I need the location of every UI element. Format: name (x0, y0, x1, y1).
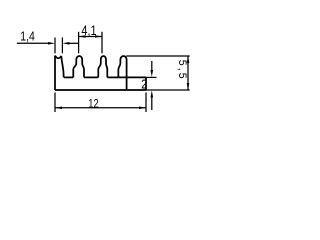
slot 2 bottom (84, 76, 98, 78)
dim 1,4 leader/dimension line (17, 42, 49, 44)
arrow 12 left (points left, tip at x=55) (55, 107, 62, 110)
dim 2 lower arrow shaft (151, 97, 153, 110)
dim 5,5 dimension line (187, 56, 189, 90)
svg-text:4,1: 4,1 (81, 23, 96, 38)
slot 1 bottom (64, 76, 74, 78)
arrow 2 bottom (points up, tip y=90.4) (151, 90, 154, 97)
fin 3 (tapered, domed top) (98, 56, 107, 77)
arrow 12 right (points right, tip at x=146) (139, 107, 146, 110)
profile bottom edge (55, 89, 146, 91)
dim 12 extension line left (54, 93, 56, 113)
tab top surface (118, 76, 146, 78)
dim 1,4 right arrow tail (69, 42, 79, 44)
fin 4 (tapered left, straight right wall down to bottom) (118, 56, 126, 90)
left slot inner wall (61, 56, 63, 77)
arrow 1,4 left (points right, tip at x=55) (48, 42, 55, 45)
dim 2 extension line (tab top extended) (146, 76, 157, 78)
svg-text:12: 12 (88, 96, 98, 110)
left outer wall (54, 56, 56, 90)
dim 12 dimension line (55, 107, 146, 109)
dim 1,4 extension line right (61, 38, 63, 54)
arrow 2 top (points down, tip y=77) (151, 70, 154, 77)
fin 2 (tapered, domed top) (73, 56, 84, 77)
arrow 1,4 right (points left, tip at x=62.4) (62, 42, 69, 45)
dim 5,5 / 2 bottom extension line (146, 89, 190, 91)
slot 3 bottom (107, 76, 118, 78)
arrow 5,5 bottom (points down, tip y=90) (187, 83, 190, 90)
dimension graphics (17, 32, 190, 112)
dim 2 upper arrow shaft (151, 61, 153, 71)
dim 12 extension line right (145, 93, 147, 113)
heatsink profile outline (55, 56, 146, 90)
right edge of base tab (145, 77, 147, 90)
arrow 4,1 left (points left, tip at x=78.6) (79, 35, 86, 38)
arrow 5,5 top (points up, tip y=56) (187, 56, 190, 63)
dim 1,4 extension line left (54, 38, 56, 54)
dim 5,5 top extension line (126, 55, 190, 57)
arrow 4,1 right (points right, tip at x=102) (95, 35, 102, 38)
arrowheads (48, 35, 189, 109)
dim 4,1 dimension line (79, 36, 102, 38)
arched top of left slot (55, 56, 61, 59)
dim 4,1 extension line left (78, 32, 80, 54)
svg-text:2: 2 (141, 77, 147, 92)
dim 4,1 extension line right (101, 32, 103, 54)
svg-text:1,4: 1,4 (20, 28, 35, 43)
svg-text:5,5: 5,5 (176, 60, 188, 79)
